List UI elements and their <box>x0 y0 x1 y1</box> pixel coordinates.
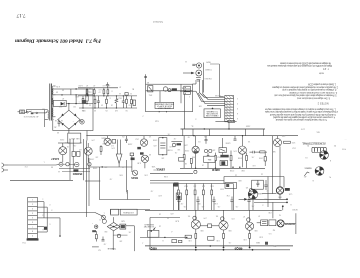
dark label VOL <box>92 230 96 232</box>
svg-text:2: 2 <box>142 114 143 116</box>
svg-text:b: b <box>109 96 110 98</box>
svg-text:6.8: 6.8 <box>253 164 256 166</box>
svg-text:B1: B1 <box>132 87 134 89</box>
small box on mid rail <box>125 93 128 96</box>
lower cap C51 <box>97 100 100 102</box>
speaker drop wire <box>295 213 297 234</box>
notes paragraph 3 (rotated tiny text) <box>264 107 338 121</box>
octal socket upper <box>320 151 329 160</box>
switch S1 <box>27 112 29 114</box>
bottom edge dots <box>159 111 160 112</box>
svg-text:S3: S3 <box>147 81 149 83</box>
svg-text:2K7: 2K7 <box>86 90 89 92</box>
svg-text:4MFD: 4MFD <box>211 168 220 172</box>
output tube V6 <box>219 221 228 230</box>
svg-text:1W: 1W <box>115 109 118 111</box>
feedback label block <box>143 223 154 228</box>
svg-text:4: 4 <box>262 204 263 206</box>
dark switch wafer <box>172 88 177 90</box>
resistor above HT rail <box>228 120 235 122</box>
transformer T1 secondary windings <box>52 86 53 95</box>
svg-text:.02: .02 <box>151 189 154 191</box>
svg-text:470: 470 <box>170 212 173 214</box>
top rail <box>78 87 118 89</box>
value labels upper row <box>184 140 263 166</box>
svg-text:3. during the life of this pro: 3. during the life of this product by th… <box>270 113 336 116</box>
V6 top cap <box>221 217 225 221</box>
svg-text:16: 16 <box>159 224 161 226</box>
drop wires to bottom section <box>98 167 100 200</box>
svg-text:12AX7: 12AX7 <box>51 157 59 161</box>
anode resistor R10 <box>183 155 185 160</box>
connector body <box>312 147 326 152</box>
small circle below diamond <box>117 234 120 237</box>
output tube V5 <box>191 220 200 229</box>
ladder resistor R50 <box>86 90 88 94</box>
tube V3a upper <box>140 139 147 146</box>
bridge rectifier diamond <box>58 110 80 129</box>
svg-text:.1: .1 <box>142 241 144 243</box>
svg-text:4: 4 <box>237 112 238 114</box>
svg-text:47: 47 <box>86 84 88 86</box>
svg-text:1: 1 <box>42 198 43 200</box>
meter M1 <box>80 120 84 124</box>
mid rail <box>78 95 137 97</box>
rects right of V2b <box>112 140 116 144</box>
svg-text:.05: .05 <box>168 132 171 134</box>
rail dots <box>195 247 197 249</box>
transformer T1 primary winding <box>48 111 49 120</box>
coupling box <box>219 148 226 153</box>
svg-text:12: 12 <box>224 164 226 166</box>
driver resistor Rc <box>194 190 196 195</box>
notes paragraph 2 (rotated tiny text) <box>272 83 338 105</box>
jack drop wires <box>203 63 205 93</box>
svg-text:LOOM: LOOM <box>215 94 221 96</box>
svg-text:50: 50 <box>125 109 127 111</box>
pot circle 1 <box>59 162 63 166</box>
tape jack cap <box>192 63 195 65</box>
svg-text:270: 270 <box>91 138 94 140</box>
pot circle 4 <box>88 163 91 166</box>
resistor below V3 right <box>190 158 192 163</box>
svg-text:2. found between units of the: 2. found between units of the same model… <box>264 110 338 113</box>
horizontal wire lower <box>99 199 150 201</box>
svg-text:.05: .05 <box>108 84 111 86</box>
tube V3b lower <box>141 155 148 162</box>
svg-text:Fig 7.1 Model 601 Schematic D: Fig 7.1 Model 601 Schematic Diagram <box>14 38 101 44</box>
selector enclosure <box>146 84 193 112</box>
bend diagonals <box>199 93 204 98</box>
svg-text:5: 5 <box>49 223 50 225</box>
stub above selector box <box>145 74 147 84</box>
rail junction dots <box>204 128 205 129</box>
driver resistor Rb <box>186 190 188 195</box>
svg-text:C18: C18 <box>289 193 292 195</box>
ladder resistor R51 <box>93 90 95 94</box>
svg-text:117V: 117V <box>300 127 305 129</box>
svg-text:P2: P2 <box>334 144 336 146</box>
drop wire to selector <box>44 110 46 127</box>
tag strip cell dots <box>31 198 33 236</box>
svg-text:25: 25 <box>167 216 169 218</box>
svg-text:2K2: 2K2 <box>217 156 220 158</box>
svg-text:4: 4 <box>195 117 196 119</box>
bridge right wire to meter <box>79 120 81 122</box>
svg-text:6: 6 <box>42 228 43 230</box>
tape jack circle <box>196 63 201 68</box>
svg-text:J1: J1 <box>185 60 187 62</box>
svg-text:.05: .05 <box>129 231 132 233</box>
svg-text:100K: 100K <box>258 156 263 158</box>
link wires pots <box>63 163 66 165</box>
svg-text:.02: .02 <box>188 136 191 138</box>
inner sub-box right part <box>184 86 191 94</box>
twin switch circles <box>163 87 167 91</box>
input wire lower <box>10 179 73 181</box>
svg-text:V1: V1 <box>305 156 307 158</box>
svg-text:270: 270 <box>231 217 234 219</box>
svg-text:7.25: 7.25 <box>322 67 329 70</box>
tube V3 <box>192 146 199 153</box>
svg-text:.05: .05 <box>122 135 125 137</box>
svg-text:6U8: 6U8 <box>220 187 223 189</box>
svg-text:1K2: 1K2 <box>292 147 295 149</box>
pot terminal circles <box>204 149 207 152</box>
svg-text:16: 16 <box>159 213 161 215</box>
svg-text:100K: 100K <box>191 156 196 158</box>
mains wires <box>26 109 48 111</box>
svg-text:MOTOR SUPPLY: MOTOR SUPPLY <box>156 104 172 106</box>
svg-text:PHONO: PHONO <box>73 172 83 176</box>
svg-text:.05: .05 <box>236 205 239 207</box>
svg-text:2: 2 <box>49 203 50 205</box>
svg-text:.05: .05 <box>252 156 255 158</box>
small box top right <box>225 183 237 189</box>
V8 plate resistor <box>284 141 291 143</box>
drop wires from rail <box>272 136 274 194</box>
speaker connector <box>277 220 284 227</box>
svg-text:SEL: SEL <box>316 130 320 132</box>
svg-text:1. This circuit diagram is sub: 1. This circuit diagram is subject to ch… <box>264 107 336 110</box>
V5 top cap <box>193 216 197 220</box>
pot body 2 <box>102 219 106 223</box>
svg-text:1M: 1M <box>193 185 196 187</box>
splitter drop wire <box>252 199 254 210</box>
svg-text:390: 390 <box>197 202 200 204</box>
svg-text:.02: .02 <box>110 177 113 179</box>
svg-text:V7: V7 <box>243 215 245 217</box>
inner bus line <box>53 94 93 96</box>
svg-text:1M: 1M <box>104 166 107 168</box>
misc value labels mid row <box>65 135 151 168</box>
decoupling cap C50 <box>107 82 109 84</box>
driver resistor Rd <box>202 190 204 195</box>
driver resistor Re <box>211 190 213 195</box>
svg-text:.02: .02 <box>174 137 177 139</box>
diode D1 in box <box>54 100 67 106</box>
tube V2 <box>84 147 92 155</box>
svg-text:6BQ5: 6BQ5 <box>149 246 157 250</box>
svg-text:8: 8 <box>330 159 331 161</box>
cap C22 <box>125 138 128 140</box>
svg-text:V6: V6 <box>216 215 218 217</box>
wire from tag strip to pots <box>59 218 61 236</box>
right vertical component <box>131 100 133 104</box>
svg-text:.05: .05 <box>218 205 221 207</box>
ladder resistor R52 <box>103 90 105 94</box>
svg-text:6.3V: 6.3V <box>78 84 83 86</box>
svg-text:4: 4 <box>42 214 43 216</box>
comps right of socket <box>252 180 264 189</box>
svg-text:.05: .05 <box>74 144 77 146</box>
svg-text:4. Controls set to mechanical: 4. Controls set to mechanical centre of … <box>288 91 337 94</box>
HT rail upper <box>181 128 266 130</box>
svg-text:220: 220 <box>184 143 187 145</box>
svg-text:47: 47 <box>258 214 260 216</box>
driver resistor Ra <box>177 190 179 195</box>
long drop wires <box>69 139 71 180</box>
PSU enclosure box <box>53 89 93 131</box>
lower resistor R55 <box>94 99 96 103</box>
tube V10 <box>276 187 283 194</box>
caps right of V5 <box>252 151 254 154</box>
svg-text:AC INTERLOCK: AC INTERLOCK <box>23 115 38 118</box>
svg-text:MAINS: MAINS <box>304 166 311 169</box>
switch diamond <box>107 222 120 230</box>
svg-text:270K: 270K <box>229 169 234 171</box>
input jacks left edge <box>2 163 4 167</box>
svg-text:.05: .05 <box>252 205 255 207</box>
bottom rail 1 <box>145 245 293 247</box>
V7 cathode resistor <box>249 234 251 239</box>
svg-text:C30: C30 <box>268 211 271 213</box>
terminal circle <box>194 170 197 173</box>
svg-text:50: 50 <box>57 131 59 133</box>
svg-text:6X4: 6X4 <box>75 95 78 97</box>
svg-text:Mains input 240V AC. All resis: Mains input 240V AC. All resistors 1/2 w… <box>266 64 332 67</box>
pot below <box>132 170 137 175</box>
svg-text:LOUDNESS: LOUDNESS <box>122 211 134 213</box>
svg-text:Mullard: Mullard <box>153 20 163 24</box>
mains plug box <box>20 110 25 114</box>
svg-text:250V: 250V <box>59 138 64 140</box>
svg-text:P1: P1 <box>307 144 309 146</box>
svg-text:6BQ5: 6BQ5 <box>234 247 242 251</box>
svg-text:50: 50 <box>128 103 130 105</box>
fuse F1 <box>31 112 34 114</box>
svg-text:TAPE: TAPE <box>205 61 211 64</box>
svg-text:130: 130 <box>216 239 219 241</box>
svg-text:4. component values should be: 4. component values should be confirmed … <box>272 116 335 119</box>
svg-text:265V: 265V <box>245 125 250 127</box>
comps between bottom rails <box>172 240 177 243</box>
feedback arrow <box>153 227 156 230</box>
svg-text:TS1: TS1 <box>22 241 25 243</box>
strip base dark band <box>27 238 39 240</box>
svg-text:.01: .01 <box>67 145 70 147</box>
dark bold blob EQ <box>73 169 78 172</box>
ladder value labels <box>89 90 131 105</box>
svg-text:50: 50 <box>101 103 103 105</box>
svg-text:6AN8: 6AN8 <box>258 192 263 195</box>
resistor R12 <box>207 156 209 161</box>
dark label 2.2K <box>220 155 228 158</box>
resistor R15 <box>246 156 248 161</box>
svg-text:V5: V5 <box>188 215 190 217</box>
junction dot above label box <box>212 108 214 110</box>
bottom stub wire <box>92 246 99 248</box>
svg-text:6AN8: 6AN8 <box>226 141 231 144</box>
svg-text:220K: 220K <box>184 149 189 151</box>
tube V5 driver <box>238 146 246 154</box>
svg-text:5Y3: 5Y3 <box>282 135 285 137</box>
svg-text:470: 470 <box>153 144 156 146</box>
output transformer primary box <box>261 220 268 226</box>
svg-text:All voltages measured with 20,: All voltages measured with 20,000 ohm/vo… <box>279 62 331 65</box>
socket frame <box>224 176 284 178</box>
inner verticals <box>159 91 161 103</box>
svg-text:7.17: 7.17 <box>16 12 25 18</box>
svg-text:6AV6: 6AV6 <box>101 137 105 140</box>
bridge diode marks <box>61 114 64 117</box>
tube V2b <box>104 138 111 145</box>
svg-text:2M: 2M <box>104 230 107 232</box>
dark labels near V3a <box>137 147 141 149</box>
HT secondary wire with diode <box>66 103 93 105</box>
function boxes row <box>111 209 119 215</box>
secondary taps <box>53 85 55 87</box>
svg-text:CABLE LOOM: CABLE LOOM <box>206 114 219 117</box>
box right of diamond <box>120 224 126 229</box>
mid column comps <box>130 153 134 156</box>
svg-text:6. See alignment instructions: 6. See alignment instructions sect <box>297 96 330 99</box>
tag strip drop to rail <box>228 122 230 129</box>
node dots on HT line <box>75 103 76 104</box>
vertical link <box>70 89 72 95</box>
mid cathode wire <box>88 166 132 168</box>
svg-text:D2: D2 <box>73 105 75 107</box>
svg-text:12: 12 <box>89 87 91 89</box>
vertical pair from jacks <box>198 80 200 93</box>
lower resistor R54 with dark label <box>82 99 84 103</box>
octal socket lower <box>315 167 324 176</box>
extra density labels <box>24 85 346 247</box>
scattered tiny value labels <box>22 60 336 245</box>
jack lower marks <box>196 77 201 79</box>
svg-text:220K: 220K <box>127 143 132 145</box>
driver box <box>173 183 233 185</box>
top row caps <box>177 197 250 211</box>
svg-text:6.3: 6.3 <box>99 88 102 90</box>
svg-text:T2: T2 <box>279 214 281 216</box>
svg-text:16: 16 <box>61 119 63 121</box>
resistor R21 <box>100 147 102 152</box>
svg-text:.05: .05 <box>229 241 232 243</box>
svg-text:470K: 470K <box>237 157 242 159</box>
rail cap C9b <box>234 138 237 140</box>
ladder resistor R53 <box>107 90 109 94</box>
svg-text:2. All capacitor values in mic: 2. All capacitor values in microfarads u… <box>272 86 338 89</box>
wire left of V10 <box>262 193 276 195</box>
svg-text:47: 47 <box>119 85 121 87</box>
svg-text:note: note <box>318 72 324 75</box>
lower cap C52 <box>122 100 125 102</box>
funnel arrow (record changer pointer) <box>117 140 119 155</box>
svg-text:330: 330 <box>228 229 231 231</box>
svg-text:3: 3 <box>51 209 52 211</box>
lower resistor R58 <box>126 99 128 103</box>
coupling rects between V1 V2 <box>72 152 75 157</box>
wire from box right edge to jacks <box>193 83 197 85</box>
phase splitter socket (pie) <box>248 190 258 200</box>
small box V3 left <box>179 158 184 162</box>
lower box right of V5 <box>208 236 214 240</box>
svg-text:47: 47 <box>62 97 64 99</box>
svg-text:PL: PL <box>329 175 331 177</box>
left drop wire <box>184 94 186 129</box>
svg-text:1: 1 <box>189 95 190 97</box>
svg-text:1M: 1M <box>177 148 180 150</box>
svg-text:c: c <box>78 100 79 102</box>
svg-text:V6: V6 <box>82 109 84 111</box>
svg-text:12: 12 <box>261 173 263 175</box>
svg-text:V2: V2 <box>149 135 151 137</box>
svg-text:1/2: 1/2 <box>111 144 114 146</box>
svg-text:1M: 1M <box>161 157 164 159</box>
pot body 1 <box>101 215 105 219</box>
end component right <box>133 100 136 106</box>
svg-text:.02: .02 <box>181 202 184 204</box>
bottom rail <box>79 107 137 109</box>
right feed lines with dots <box>248 198 287 200</box>
svg-text:47: 47 <box>93 84 95 86</box>
svg-text:500K: 500K <box>92 167 97 169</box>
small mark lower right <box>265 242 268 245</box>
svg-text:5. in this manual before repla: 5. in this manual before replacement par… <box>275 118 327 121</box>
tube V8 rectifier <box>274 139 282 147</box>
bottom rail 2 <box>150 249 290 251</box>
tube V1 <box>59 147 67 155</box>
svg-text:TREBLE: TREBLE <box>107 247 116 249</box>
pot circle 3 <box>75 162 79 166</box>
svg-text:1M: 1M <box>212 149 215 151</box>
bias supply box <box>68 133 81 143</box>
strip stub wires <box>37 201 44 203</box>
svg-text:470K: 470K <box>102 142 107 144</box>
svg-text:2W: 2W <box>273 244 276 246</box>
svg-text:SPKR: SPKR <box>292 208 298 210</box>
svg-text:47: 47 <box>266 189 268 191</box>
wire from PSU box bottom <box>86 131 88 141</box>
svg-text:2: 2 <box>237 102 238 104</box>
svg-text:1M: 1M <box>79 141 82 143</box>
feed wires from left <box>150 172 193 174</box>
dark comp at driver box top left <box>174 183 179 187</box>
svg-text:16: 16 <box>264 198 266 200</box>
inner mid bus <box>146 90 193 92</box>
svg-text:100K: 100K <box>89 157 94 159</box>
selector label block <box>155 102 174 108</box>
phase splitter top cap <box>249 189 252 192</box>
cap left <box>102 239 105 241</box>
screen rail <box>145 209 282 211</box>
svg-text:.05: .05 <box>202 205 205 207</box>
V10 drop wire <box>279 194 281 199</box>
svg-text:V9: V9 <box>246 186 248 188</box>
cathode resistor left <box>185 235 191 238</box>
svg-text:.05: .05 <box>184 205 187 207</box>
